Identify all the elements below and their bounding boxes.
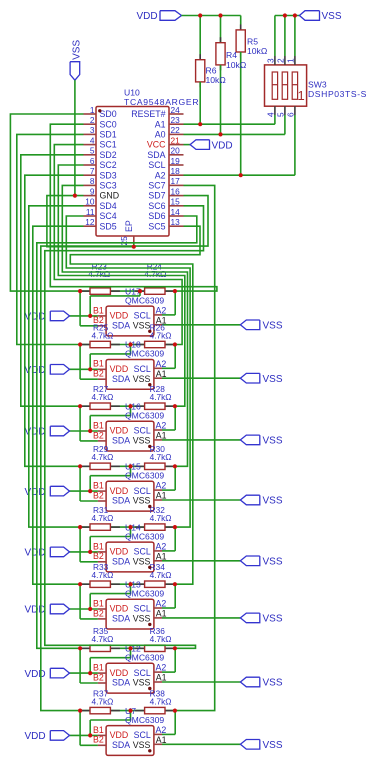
svg-text:B1: B1 (93, 725, 104, 735)
svg-text:4.7kΩ: 4.7kΩ (144, 269, 166, 279)
svg-text:QMC6309: QMC6309 (125, 410, 164, 420)
svg-text:A1: A1 (156, 609, 167, 619)
svg-text:SD4: SD4 (100, 201, 117, 211)
svg-text:VDD: VDD (212, 140, 233, 151)
svg-text:SCL: SCL (134, 311, 151, 321)
svg-text:SCL: SCL (134, 486, 151, 496)
svg-text:A2: A2 (156, 663, 167, 673)
svg-text:4.7kΩ: 4.7kΩ (92, 570, 114, 580)
svg-text:12: 12 (85, 217, 95, 227)
svg-text:16: 16 (171, 186, 181, 196)
svg-text:VSS: VSS (263, 678, 283, 689)
svg-text:VSS: VSS (263, 614, 283, 625)
svg-text:20: 20 (171, 146, 181, 156)
svg-text:B2: B2 (93, 369, 104, 379)
svg-text:QMC6309: QMC6309 (125, 349, 164, 359)
svg-text:SD5: SD5 (100, 221, 117, 231)
svg-text:A2: A2 (156, 481, 167, 491)
svg-text:VSS: VSS (133, 436, 151, 446)
svg-text:14: 14 (171, 207, 181, 217)
svg-text:SD0: SD0 (100, 109, 117, 119)
svg-text:A1: A1 (156, 673, 167, 683)
svg-text:VDD: VDD (25, 731, 46, 742)
svg-text:VDD: VDD (25, 427, 46, 438)
svg-text:VDD: VDD (110, 668, 129, 678)
svg-text:VSS: VSS (322, 11, 342, 22)
svg-text:R6: R6 (206, 66, 217, 76)
svg-text:2: 2 (90, 115, 95, 125)
svg-text:A2: A2 (156, 306, 167, 316)
svg-text:15: 15 (171, 197, 181, 207)
svg-text:VSS: VSS (133, 678, 151, 688)
svg-text:VSS: VSS (133, 740, 151, 750)
svg-text:DSHP03TS-S: DSHP03TS-S (308, 89, 367, 99)
svg-text:13: 13 (171, 217, 181, 227)
svg-text:A1: A1 (156, 491, 167, 501)
svg-text:VSS: VSS (263, 436, 283, 447)
svg-text:VSS: VSS (263, 496, 283, 507)
svg-text:4.7kΩ: 4.7kΩ (150, 696, 172, 706)
svg-text:B1: B1 (93, 481, 104, 491)
svg-text:4: 4 (265, 112, 275, 117)
svg-text:5: 5 (90, 146, 95, 156)
svg-text:25: 25 (119, 236, 129, 246)
svg-text:SC2: SC2 (100, 160, 117, 170)
svg-text:SW3: SW3 (308, 80, 327, 90)
svg-text:SCL: SCL (134, 547, 151, 557)
svg-text:SDA: SDA (112, 740, 130, 750)
svg-text:4.7kΩ: 4.7kΩ (150, 452, 172, 462)
svg-text:TCA9548ARGER: TCA9548ARGER (124, 97, 199, 107)
svg-text:QMC6309: QMC6309 (125, 588, 164, 598)
svg-text:SC6: SC6 (148, 201, 165, 211)
svg-text:6: 6 (285, 112, 295, 117)
svg-text:3: 3 (90, 125, 95, 135)
svg-text:VSS: VSS (133, 557, 151, 567)
svg-text:A1: A1 (156, 369, 167, 379)
svg-text:4: 4 (90, 135, 95, 145)
svg-text:VSS: VSS (133, 321, 151, 331)
svg-text:RESET#: RESET# (131, 109, 165, 119)
svg-text:SDA: SDA (112, 321, 130, 331)
svg-text:1: 1 (90, 105, 95, 115)
svg-text:R5: R5 (247, 36, 258, 46)
svg-text:B2: B2 (93, 430, 104, 440)
svg-text:QMC6309: QMC6309 (125, 715, 164, 725)
svg-text:VDD: VDD (25, 365, 46, 376)
svg-text:SDA: SDA (112, 374, 130, 384)
svg-text:SCL: SCL (134, 364, 151, 374)
svg-text:9: 9 (90, 186, 95, 196)
svg-text:SC7: SC7 (148, 181, 165, 191)
svg-text:B2: B2 (93, 551, 104, 561)
svg-text:4.7kΩ: 4.7kΩ (150, 570, 172, 580)
svg-text:8: 8 (90, 176, 95, 186)
svg-text:SD3: SD3 (100, 170, 117, 180)
svg-text:B1: B1 (93, 541, 104, 551)
svg-text:SC3: SC3 (100, 181, 117, 191)
svg-text:21: 21 (171, 135, 181, 145)
svg-text:VDD: VDD (110, 311, 129, 321)
svg-text:24: 24 (171, 105, 181, 115)
svg-text:SC5: SC5 (148, 221, 165, 231)
svg-text:10: 10 (85, 197, 95, 207)
svg-text:18: 18 (171, 166, 181, 176)
svg-text:A2: A2 (155, 170, 166, 180)
svg-text:4.7kΩ: 4.7kΩ (92, 696, 114, 706)
svg-text:VDD: VDD (25, 487, 46, 498)
svg-text:19: 19 (171, 156, 181, 166)
svg-text:A2: A2 (156, 725, 167, 735)
svg-text:4.7kΩ: 4.7kΩ (150, 392, 172, 402)
svg-text:4.7kΩ: 4.7kΩ (92, 452, 114, 462)
svg-text:SC1: SC1 (100, 140, 117, 150)
svg-text:U10: U10 (124, 87, 140, 97)
svg-text:A2: A2 (156, 542, 167, 552)
svg-text:QMC6309: QMC6309 (125, 531, 164, 541)
svg-text:A2: A2 (156, 599, 167, 609)
svg-text:22: 22 (171, 125, 181, 135)
svg-text:7: 7 (90, 166, 95, 176)
svg-text:VDD: VDD (110, 426, 129, 436)
svg-text:SDA: SDA (112, 678, 130, 688)
svg-text:VSS: VSS (133, 374, 151, 384)
svg-text:SCL: SCL (134, 730, 151, 740)
svg-text:A2: A2 (156, 359, 167, 369)
svg-text:VSS: VSS (263, 374, 283, 385)
svg-text:VCC: VCC (147, 140, 166, 150)
svg-text:VDD: VDD (110, 547, 129, 557)
svg-text:VSS: VSS (263, 321, 283, 332)
svg-text:B1: B1 (93, 305, 104, 315)
svg-text:23: 23 (171, 115, 181, 125)
svg-text:VSS: VSS (263, 740, 283, 751)
svg-text:1: 1 (285, 58, 295, 63)
svg-text:SDA: SDA (147, 150, 165, 160)
svg-text:6: 6 (90, 156, 95, 166)
svg-text:QMC6309: QMC6309 (125, 471, 164, 481)
svg-text:4.7kΩ: 4.7kΩ (150, 513, 172, 523)
svg-text:10kΩ: 10kΩ (206, 75, 227, 85)
svg-text:VDD: VDD (110, 364, 129, 374)
svg-text:A2: A2 (156, 421, 167, 431)
svg-text:B1: B1 (93, 598, 104, 608)
svg-text:SDA: SDA (112, 436, 130, 446)
svg-text:VDD: VDD (110, 604, 129, 614)
svg-text:SCL: SCL (134, 426, 151, 436)
svg-text:VSS: VSS (263, 557, 283, 568)
svg-text:SD1: SD1 (100, 130, 117, 140)
svg-text:VSS: VSS (72, 40, 83, 60)
svg-text:3: 3 (265, 58, 275, 63)
svg-text:SCL: SCL (148, 160, 165, 170)
svg-text:4.7kΩ: 4.7kΩ (92, 513, 114, 523)
svg-text:VDD: VDD (25, 548, 46, 559)
svg-text:VDD: VDD (137, 11, 158, 22)
svg-text:4.7kΩ: 4.7kΩ (92, 634, 114, 644)
svg-text:VDD: VDD (25, 669, 46, 680)
svg-text:A1: A1 (156, 431, 167, 441)
svg-text:VDD: VDD (110, 486, 129, 496)
svg-text:17: 17 (171, 176, 181, 186)
svg-text:R4: R4 (226, 50, 237, 60)
svg-text:4.7kΩ: 4.7kΩ (88, 269, 110, 279)
svg-text:VDD: VDD (25, 312, 46, 323)
svg-text:A1: A1 (156, 551, 167, 561)
svg-text:B2: B2 (93, 735, 104, 745)
svg-text:B1: B1 (93, 359, 104, 369)
svg-text:SC4: SC4 (100, 211, 117, 221)
svg-text:A0: A0 (155, 130, 166, 140)
svg-text:B2: B2 (93, 672, 104, 682)
svg-text:SDA: SDA (112, 496, 130, 506)
svg-text:B2: B2 (93, 608, 104, 618)
svg-text:4.7kΩ: 4.7kΩ (150, 634, 172, 644)
svg-text:SCL: SCL (134, 604, 151, 614)
svg-text:SDA: SDA (112, 614, 130, 624)
svg-text:10kΩ: 10kΩ (247, 46, 268, 56)
svg-text:GND: GND (100, 191, 120, 201)
svg-text:VDD: VDD (25, 605, 46, 616)
svg-text:4.7kΩ: 4.7kΩ (92, 330, 114, 340)
svg-text:4.7kΩ: 4.7kΩ (150, 330, 172, 340)
svg-text:VDD: VDD (110, 730, 129, 740)
svg-text:EP: EP (124, 220, 134, 232)
svg-text:SCL: SCL (134, 668, 151, 678)
svg-text:QMC6309: QMC6309 (125, 653, 164, 663)
svg-text:SD2: SD2 (100, 150, 117, 160)
svg-text:B1: B1 (93, 420, 104, 430)
svg-text:SDA: SDA (112, 557, 130, 567)
svg-text:B1: B1 (93, 663, 104, 673)
svg-text:10kΩ: 10kΩ (226, 60, 247, 70)
svg-text:B2: B2 (93, 490, 104, 500)
svg-text:11: 11 (86, 207, 95, 217)
svg-text:A1: A1 (156, 735, 167, 745)
svg-text:VSS: VSS (133, 614, 151, 624)
svg-text:SD6: SD6 (148, 211, 165, 221)
svg-text:4.7kΩ: 4.7kΩ (92, 392, 114, 402)
svg-text:1: 1 (298, 88, 305, 103)
svg-text:SC0: SC0 (100, 119, 117, 129)
svg-text:2: 2 (275, 58, 285, 63)
svg-text:5: 5 (275, 112, 285, 117)
svg-text:A1: A1 (155, 119, 166, 129)
svg-text:VSS: VSS (133, 496, 151, 506)
svg-text:SD7: SD7 (148, 191, 165, 201)
svg-text:QMC6309: QMC6309 (125, 295, 164, 305)
